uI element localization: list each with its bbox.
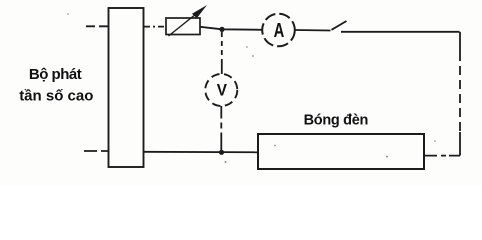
svg-text:Bóng đèn: Bóng đèn [304,112,368,128]
svg-text:Bộ phát: Bộ phát [29,66,82,83]
svg-text:A: A [274,19,285,42]
svg-text:tần số cao: tần số cao [19,87,93,104]
svg-text:V: V [217,81,227,100]
